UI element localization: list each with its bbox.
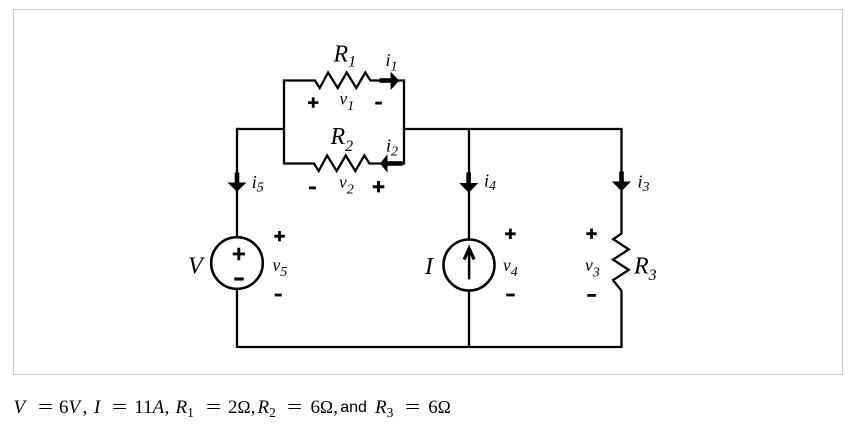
wire: parallel block left side: [283, 79, 285, 164]
svg-text:i3: i3: [638, 172, 650, 196]
wire: top node horizontal, left rail to parallel block: [236, 128, 284, 130]
svg-text:i5: i5: [252, 172, 264, 196]
svg-text:R2: R2: [330, 124, 354, 155]
svg-text:R3: R3: [633, 254, 657, 285]
svg-text:i2: i2: [386, 136, 398, 160]
current arrow i5: [228, 173, 247, 192]
resistor R1: [284, 73, 404, 89]
current arrow i1: [380, 72, 400, 90]
svg-text:v3: v3: [585, 255, 600, 281]
current source I: [444, 240, 495, 291]
polarity sign: v1 plus: [308, 97, 318, 107]
resistor R3: [613, 129, 629, 291]
wire: current source branch bottom: [468, 290, 470, 348]
svg-text:i1: i1: [386, 50, 398, 75]
wire: left rail from voltage source to bottom rail: [236, 289, 238, 349]
svg-text:v1: v1: [340, 88, 355, 114]
resistor R2: [284, 156, 404, 172]
wire: middle node horizontal, block to R3 branch: [404, 128, 623, 130]
wire: R3 branch bottom lead: [620, 291, 622, 348]
svg-text:V: V: [188, 254, 205, 280]
caption: component values: [0, 398, 857, 426]
svg-text:v2: v2: [339, 172, 354, 198]
svg-text:v5: v5: [273, 255, 288, 280]
svg-text:v4: v4: [503, 255, 518, 280]
current arrow i3: [612, 172, 631, 192]
svg-text:I: I: [424, 254, 434, 280]
polarity sign: v4 minus: [506, 294, 514, 297]
polarity sign: v3 minus: [587, 294, 596, 297]
polarity sign: v1 minus: [375, 102, 382, 105]
polarity sign: v4 plus: [505, 229, 515, 239]
current arrow i2: [380, 154, 403, 173]
polarity sign: v2 plus: [373, 181, 385, 192]
bottom wire: [237, 346, 622, 348]
polarity sign: v2 minus: [309, 186, 316, 189]
svg-text:i4: i4: [484, 170, 496, 194]
polarity sign: v5 minus: [275, 294, 282, 297]
polarity sign: v5 plus: [274, 231, 285, 241]
svg-text:R1: R1: [333, 42, 357, 71]
wire: left rail from top node down to voltage source: [236, 128, 238, 238]
wire: parallel block right side: [403, 79, 405, 164]
wire: current source branch top: [468, 129, 470, 240]
current arrow i4: [459, 173, 478, 193]
polarity sign: v3 plus: [586, 229, 596, 239]
voltage source V: [211, 237, 263, 289]
